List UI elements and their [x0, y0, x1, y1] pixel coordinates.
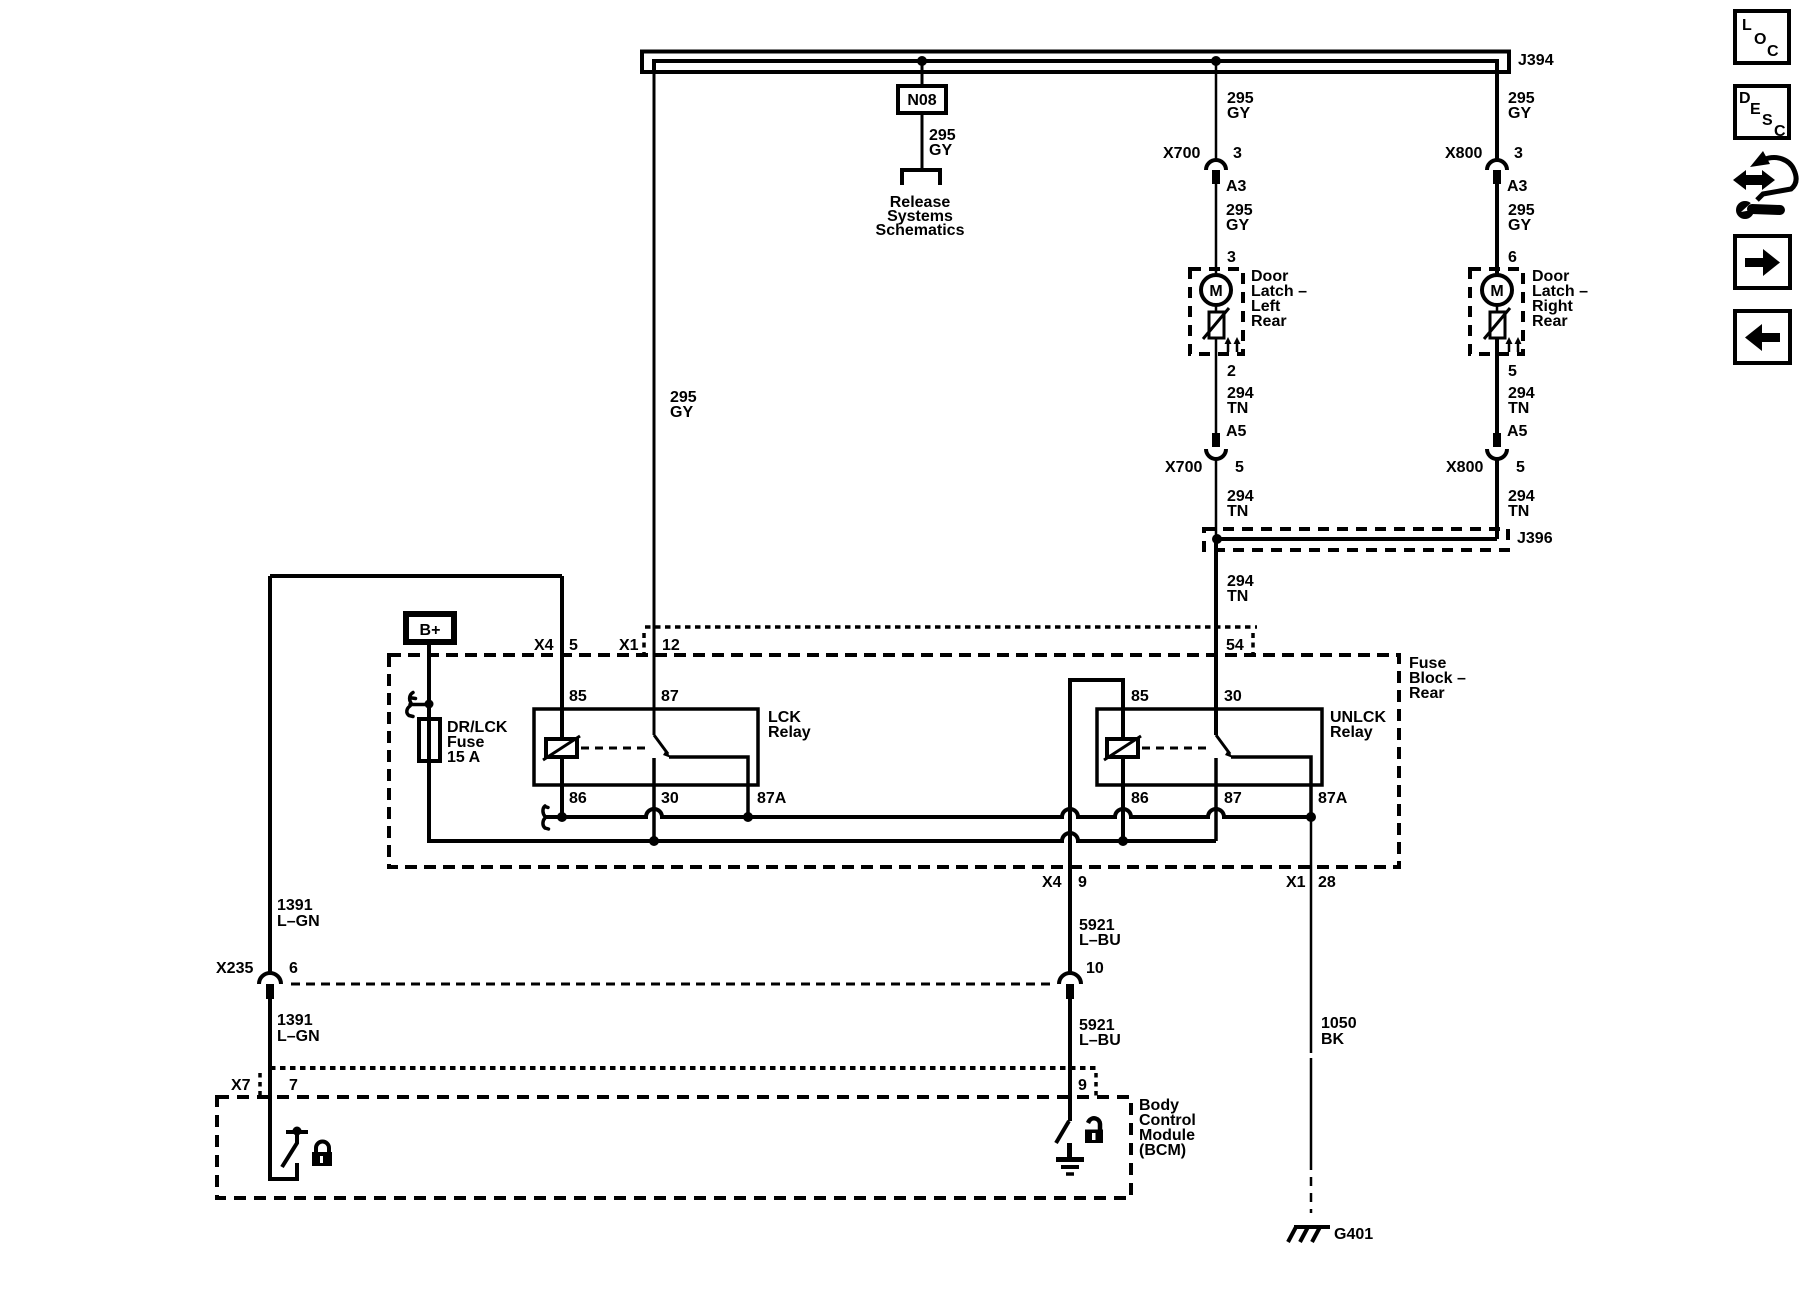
svg-text:X1: X1: [619, 637, 639, 654]
svg-text:J396: J396: [1517, 530, 1553, 547]
connector X800 pin 5 female arc: [1487, 449, 1507, 459]
connector X800 pin 3 female arc: [1487, 160, 1507, 170]
LCK switch armature: [654, 735, 668, 754]
svg-text:N08: N08: [907, 92, 936, 109]
svg-text:5: 5: [1516, 459, 1525, 476]
closed padlock icon: [316, 1142, 329, 1153]
svg-text:GY: GY: [1508, 105, 1531, 122]
svg-text:A3: A3: [1226, 178, 1247, 195]
svg-text:A5: A5: [1226, 423, 1247, 440]
connector X1 tick right: [1251, 633, 1255, 655]
svg-text:C: C: [1767, 43, 1779, 60]
svg-text:X700: X700: [1165, 459, 1202, 476]
connector X235 pin 10 male terminal: [1066, 984, 1074, 999]
ground G401 symbol: [1294, 1225, 1330, 1229]
svg-text:1391: 1391: [277, 1012, 313, 1029]
svg-text:L–BU: L–BU: [1079, 932, 1121, 949]
wire 295 GY from X700 to latch: [1215, 184, 1218, 275]
junction on J394 at N08 tap: [917, 56, 927, 66]
wire X4-5 feed from left riser: [270, 574, 562, 578]
svg-text:10: 10: [1086, 960, 1104, 977]
icon diagnostic curved outline arrow: [1757, 158, 1796, 200]
unlock switch armature: [1056, 1121, 1069, 1143]
svg-text:3: 3: [1227, 249, 1236, 266]
svg-text:TN: TN: [1508, 503, 1529, 520]
svg-text:7: 7: [289, 1077, 298, 1094]
svg-text:BK: BK: [1321, 1031, 1345, 1048]
junction on J394 at left rear latch tap: [1211, 56, 1221, 66]
svg-text:M: M: [1490, 283, 1503, 300]
wire UNLCK coil to BCM 5921 L-BU: [1068, 817, 1072, 974]
wire 295 GY from J394 to X700-3: [1215, 61, 1218, 160]
connector X700 pin 5 male terminal: [1212, 433, 1220, 447]
door latch right rear dashed box: [1470, 269, 1523, 354]
svg-text:6: 6: [289, 960, 298, 977]
wire latch to pin 5: [1495, 338, 1499, 433]
position switch element (rect with slash): [1490, 312, 1505, 338]
wire 5921 L-BU to BCM: [1068, 999, 1072, 1117]
bus J396 inner wire: [1217, 537, 1497, 541]
junction ground return to 1050 BK: [1306, 812, 1316, 822]
connector X700 pin 5 female arc: [1206, 449, 1226, 459]
wire UNLCK pin 87: [1214, 758, 1218, 841]
connector X7 tick right: [1094, 1073, 1098, 1097]
svg-text:3: 3: [1514, 145, 1523, 162]
connector X7 tick left: [258, 1073, 262, 1095]
wire 1391 L-GN riser: [268, 576, 272, 974]
fuse block internal tap hook: [407, 693, 429, 717]
bus J394 inner wire: [654, 61, 1497, 72]
svg-text:M: M: [1209, 283, 1222, 300]
ground symbol bars: [1056, 1157, 1084, 1162]
svg-text:5: 5: [569, 637, 578, 654]
connector X700 pin 3 male terminal: [1212, 170, 1220, 184]
bus J394 outline: [642, 52, 1509, 73]
wire LCK pin 85: [560, 576, 564, 739]
junction LCK 86 to ground return: [557, 812, 567, 822]
svg-text:GY: GY: [1227, 105, 1250, 122]
hook at left end of ground return: [543, 806, 549, 829]
svg-text:X4: X4: [1042, 874, 1062, 891]
svg-text:6: 6: [1508, 249, 1517, 266]
UNLCK coil link dashed: [1142, 747, 1208, 750]
svg-text:X7: X7: [231, 1077, 251, 1094]
wire J394 to N08: [921, 61, 924, 86]
svg-text:Rear: Rear: [1251, 313, 1287, 330]
svg-text:1391: 1391: [277, 897, 313, 914]
svg-text:C: C: [1774, 123, 1786, 140]
junction feed to LCK 30: [649, 836, 659, 846]
wire motor to position switch: [1496, 305, 1499, 312]
wire 1050 BK: [1310, 817, 1313, 1161]
svg-text:X1: X1: [1286, 874, 1306, 891]
svg-text:2: 2: [1227, 363, 1236, 380]
svg-text:12: 12: [662, 637, 680, 654]
svg-text:86: 86: [569, 790, 587, 807]
wire 295 GY from J394 to X800-3: [1495, 61, 1499, 160]
wire 1050 BK dashed continuation: [1310, 1161, 1313, 1213]
svg-text:87: 87: [1224, 790, 1242, 807]
svg-text:Schematics: Schematics: [876, 222, 965, 239]
wire UNLCK pin 86: [1121, 757, 1125, 841]
svg-text:A3: A3: [1507, 178, 1528, 195]
svg-text:E: E: [1750, 101, 1761, 118]
wire LCK pin 87 from J394: [653, 61, 656, 735]
ground return line 86/87A with hops: [545, 809, 1311, 817]
wire through fuse: [427, 719, 431, 761]
wire UNLCK coil feed inverted U: [1070, 680, 1123, 817]
motor M left rear: [1201, 275, 1231, 305]
svg-text:54: 54: [1226, 637, 1244, 654]
svg-text:85: 85: [1131, 688, 1149, 705]
open padlock icon: [1088, 1118, 1100, 1130]
svg-text:L: L: [1742, 17, 1752, 34]
double up arrows: [1228, 341, 1237, 352]
wire 294 TN from X800-5 to J396: [1495, 459, 1499, 539]
lock switch pivot dot: [293, 1127, 302, 1136]
double up arrows: [1509, 341, 1518, 352]
wire 1391 L-GN to BCM: [268, 999, 272, 1179]
ground symbol stem: [1067, 1143, 1072, 1158]
svg-text:85: 85: [569, 688, 587, 705]
svg-text:B+: B+: [420, 622, 441, 639]
svg-text:28: 28: [1318, 874, 1336, 891]
connector X235 pin 10 female arc: [1059, 973, 1081, 984]
junction on J396: [1212, 534, 1222, 544]
connector X235 pin 6 male terminal: [266, 984, 274, 999]
motor M right rear: [1482, 275, 1512, 305]
svg-text:X700: X700: [1163, 145, 1200, 162]
connector X235 pin 6 female arc: [259, 973, 281, 984]
svg-text:30: 30: [661, 790, 679, 807]
wire 295 GY from X800 to latch: [1495, 184, 1499, 275]
svg-text:D: D: [1739, 90, 1751, 107]
connector X1 dotted strip: [645, 625, 1257, 629]
svg-text:Rear: Rear: [1409, 685, 1445, 702]
wire latch to pin 2: [1215, 338, 1218, 433]
svg-text:A5: A5: [1507, 423, 1528, 440]
svg-text:TN: TN: [1508, 400, 1529, 417]
fuse DR/LCK 15 A: [419, 719, 440, 761]
wire fuse output down and right to relays (with hop over coil-return wire): [429, 761, 1216, 841]
svg-text:3: 3: [1233, 145, 1242, 162]
svg-text:L–GN: L–GN: [277, 1028, 320, 1045]
wire 294 TN from J396 to fuse block pin 54: [1214, 539, 1218, 655]
lock switch bracket: [270, 1097, 297, 1179]
wire 294 TN from X700-5 to J396: [1215, 459, 1218, 539]
svg-text:O: O: [1754, 31, 1766, 48]
LCK switch 87A contact line: [669, 757, 748, 817]
svg-text:G401: G401: [1334, 1226, 1373, 1243]
unlock switch wire stub: [1068, 1097, 1072, 1121]
icon wrench: [1736, 201, 1754, 219]
svg-text:GY: GY: [929, 142, 952, 159]
position switch element (rect with slash): [1209, 312, 1224, 338]
svg-text:X800: X800: [1446, 459, 1483, 476]
svg-text:GY: GY: [1226, 217, 1249, 234]
junction at fuse top: [425, 700, 434, 709]
icon diagnostic double arrow: [1733, 170, 1775, 190]
svg-text:L–GN: L–GN: [277, 913, 320, 930]
connector X235 dashed strip: [291, 983, 1052, 986]
svg-text:Relay: Relay: [768, 724, 811, 741]
wire UNLCK pin 30 from J396: [1214, 655, 1218, 735]
svg-text:9: 9: [1078, 874, 1087, 891]
svg-text:TN: TN: [1227, 588, 1248, 605]
bus J396 dashed outline: [1204, 529, 1508, 550]
svg-text:X235: X235: [216, 960, 253, 977]
lock switch contact bar: [286, 1130, 308, 1134]
svg-text:5: 5: [1235, 459, 1244, 476]
icon LOC box: [1735, 11, 1789, 63]
UNLCK relay box: [1097, 709, 1322, 785]
LCK coil link dashed: [581, 747, 646, 750]
svg-text:Rear: Rear: [1532, 313, 1568, 330]
wire LCK pin 30: [652, 758, 656, 841]
svg-text:87A: 87A: [757, 790, 787, 807]
svg-text:X800: X800: [1445, 145, 1482, 162]
wire LCK pin 86: [560, 757, 564, 817]
door latch left rear dashed box: [1190, 269, 1243, 354]
svg-text:9: 9: [1078, 1077, 1087, 1094]
junction LCK 87A to ground return: [743, 812, 753, 822]
icon DESC box: [1735, 86, 1789, 138]
lock switch armature: [282, 1133, 297, 1167]
svg-text:Relay: Relay: [1330, 724, 1373, 741]
svg-text:TN: TN: [1227, 503, 1248, 520]
battery feed B+ box: [406, 614, 454, 642]
svg-text:X4: X4: [534, 637, 554, 654]
svg-text:15 A: 15 A: [447, 749, 481, 766]
svg-text:86: 86: [1131, 790, 1149, 807]
fuse block rear dashed box: [389, 655, 1399, 867]
svg-text:30: 30: [1224, 688, 1242, 705]
UNLCK relay coil: [1107, 739, 1138, 757]
svg-text:5: 5: [1508, 363, 1517, 380]
off-page fork symbol to Release Systems Schematics: [902, 170, 940, 185]
svg-text:1050: 1050: [1321, 1015, 1357, 1032]
svg-text:TN: TN: [1227, 400, 1248, 417]
svg-text:87: 87: [661, 688, 679, 705]
svg-text:87A: 87A: [1318, 790, 1348, 807]
svg-text:GY: GY: [670, 404, 693, 421]
connector X700 pin 3 female arc: [1206, 160, 1226, 170]
connector X7 dotted strip: [270, 1066, 1096, 1070]
LCK relay coil: [546, 739, 577, 757]
svg-text:J394: J394: [1518, 52, 1554, 69]
connector X1 tick left: [642, 633, 646, 655]
icon back arrow box: [1735, 311, 1790, 363]
junction feed to UNLCK 86: [1118, 836, 1128, 846]
connector X800 pin 5 male terminal: [1493, 433, 1501, 447]
body control module dashed box: [217, 1097, 1131, 1198]
wire B+ to fuse: [427, 644, 431, 719]
icon next arrow box: [1735, 236, 1790, 288]
LCK relay box: [534, 709, 758, 785]
svg-text:S: S: [1762, 112, 1773, 129]
UNLCK switch armature: [1216, 735, 1230, 754]
wire motor to position switch: [1215, 305, 1218, 312]
svg-text:(BCM): (BCM): [1139, 1142, 1186, 1159]
svg-text:GY: GY: [1508, 217, 1531, 234]
svg-text:L–BU: L–BU: [1079, 1032, 1121, 1049]
UNLCK switch 87A contact line: [1231, 757, 1311, 817]
connector N08 box: [898, 86, 946, 113]
wire N08 to release systems: [921, 113, 924, 168]
connector X800 pin 3 male terminal: [1493, 170, 1501, 184]
